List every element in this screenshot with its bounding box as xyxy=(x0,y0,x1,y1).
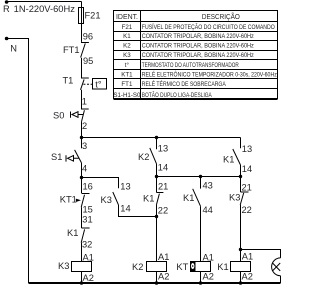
wire bus1 right drop to K1 13 contact xyxy=(240,138,242,149)
wire K3 coil to bus xyxy=(81,272,83,284)
svg-text:A2: A2 xyxy=(83,273,94,283)
thermostat t box xyxy=(93,79,107,90)
node junction K3 branch joins xyxy=(155,215,158,218)
svg-text:A2: A2 xyxy=(203,272,214,282)
svg-text:K1: K1 xyxy=(183,193,194,203)
svg-text:S0: S0 xyxy=(53,111,64,121)
svg-text:FT1: FT1 xyxy=(121,81,133,88)
svg-text:22: 22 xyxy=(242,205,252,215)
svg-text:CONTATOR TRIPOLAR, BOBINA 220V: CONTATOR TRIPOLAR, BOBINA 220V-60Hz xyxy=(142,43,254,50)
node junction lamp branch xyxy=(239,248,242,251)
wire K1 43 contact to KT1 coil xyxy=(200,206,202,261)
svg-text:K3: K3 xyxy=(123,52,131,59)
S0 actuator xyxy=(71,112,84,118)
wire S1 down to KT1 contact xyxy=(81,163,83,193)
svg-text:RELÉ TÉRMICO DE SOBRECARGA: RELÉ TÉRMICO DE SOBRECARGA xyxy=(142,81,227,88)
wire K1 coil to bus xyxy=(240,272,242,284)
svg-text:14: 14 xyxy=(242,164,252,174)
svg-text:3: 3 xyxy=(82,141,87,151)
svg-text:F21: F21 xyxy=(85,11,101,21)
svg-text:IDENT.: IDENT. xyxy=(116,12,138,21)
svg-text:K1: K1 xyxy=(143,194,154,204)
coil K2 xyxy=(147,262,167,272)
svg-text:K2: K2 xyxy=(123,43,131,50)
timer contact KT1 (15-16) xyxy=(81,194,89,208)
contact K3 (NO 13-14) xyxy=(113,192,119,205)
S1 actuator xyxy=(66,155,79,161)
svg-text:F21: F21 xyxy=(122,24,133,31)
svg-text:13: 13 xyxy=(242,144,252,154)
svg-text:K2: K2 xyxy=(132,262,143,272)
svg-text:96: 96 xyxy=(83,31,93,41)
svg-text:21: 21 xyxy=(242,183,252,193)
wire K3 NC to K1 coil xyxy=(240,205,242,262)
wire K1 13 contact to bus2 xyxy=(240,165,242,177)
node N neutral dot xyxy=(5,37,9,41)
node junction K3 parallel branch xyxy=(80,176,83,179)
wire K2 contact to bus2 xyxy=(156,164,158,177)
wire KT1 coil to bus xyxy=(200,272,202,284)
svg-text:R: R xyxy=(3,4,10,14)
wire K3 parallel branch top xyxy=(82,178,119,189)
dashed link T1 to t box xyxy=(83,83,92,85)
node R phase supply dot xyxy=(5,0,9,4)
svg-text:13: 13 xyxy=(120,181,130,191)
node junction bus2 right xyxy=(239,175,242,178)
legend table frame xyxy=(114,11,278,100)
svg-text:CONTATOR TRIPOLAR, BOBINA 220V: CONTATOR TRIPOLAR, BOBINA 220V-60Hz xyxy=(142,33,254,40)
svg-text:15: 15 xyxy=(83,204,93,214)
wire bus1 xyxy=(82,137,241,139)
svg-text:t°: t° xyxy=(95,80,102,90)
wire main column top through fuse down to FT1 xyxy=(81,2,83,42)
svg-text:1: 1 xyxy=(82,97,87,107)
svg-text:CONTATOR TRIPOLAR, BOBINA 220V: CONTATOR TRIPOLAR, BOBINA 220V-60Hz xyxy=(142,52,254,59)
contact K3 (NC 21-22) xyxy=(240,177,248,206)
svg-text:14: 14 xyxy=(158,163,168,173)
svg-text:K1: K1 xyxy=(123,33,131,40)
wire lamp branch xyxy=(241,250,281,258)
svg-text:A2: A2 xyxy=(242,272,253,282)
node KT1 bus junction xyxy=(199,281,203,285)
svg-text:31: 31 xyxy=(82,215,92,225)
svg-text:21: 21 xyxy=(158,182,168,192)
svg-text:BOTÃO DUPLO LIGA-DESLIGA: BOTÃO DUPLO LIGA-DESLIGA xyxy=(142,92,213,99)
svg-text:A1: A1 xyxy=(242,251,253,261)
wire K2 coil to bus xyxy=(156,272,158,284)
svg-text:2: 2 xyxy=(82,121,87,131)
svg-text:A1: A1 xyxy=(203,252,214,262)
node K3 bus junction xyxy=(80,281,84,285)
node junction bus1 K2 column xyxy=(155,136,158,139)
node junction bus1 left xyxy=(80,136,83,139)
svg-text:4: 4 xyxy=(82,164,87,174)
svg-text:43: 43 xyxy=(203,180,213,190)
svg-text:32: 32 xyxy=(82,239,92,249)
svg-text:K3: K3 xyxy=(229,192,240,202)
coil K3 xyxy=(72,262,92,272)
thermal relay contact FT1 (NC 95-96) xyxy=(81,43,89,58)
KT1 timer arrow xyxy=(76,199,81,202)
svg-text:KT: KT xyxy=(176,262,188,272)
svg-text:K1: K1 xyxy=(67,228,78,238)
contact K1 (NC 21-22) xyxy=(156,177,163,205)
coil K1 xyxy=(231,262,251,272)
svg-text:K3: K3 xyxy=(101,195,112,205)
svg-text:T1: T1 xyxy=(63,76,74,86)
svg-text:FUSÍVEL DE PROTEÇÃO DO CIRCUIT: FUSÍVEL DE PROTEÇÃO DO CIRCUITO DE COMAN… xyxy=(142,24,275,31)
thermostat contact T1 (NC) xyxy=(81,78,89,90)
svg-text:95: 95 xyxy=(83,56,93,66)
pushbutton S1 (NO) xyxy=(75,150,82,163)
svg-text:A2: A2 xyxy=(158,271,169,281)
svg-text:A1: A1 xyxy=(158,252,169,262)
wire R line to fuse xyxy=(7,1,82,3)
contact K2 (NO 13-14) xyxy=(150,148,157,164)
svg-text:44: 44 xyxy=(203,205,213,215)
svg-text:TERMOSTATO DO AUTOTRANSFORMADO: TERMOSTATO DO AUTOTRANSFORMADOR xyxy=(142,62,239,69)
svg-text:N: N xyxy=(10,44,17,54)
svg-text:KT1: KT1 xyxy=(60,195,77,205)
svg-text:1N-220V-60Hz: 1N-220V-60Hz xyxy=(14,4,76,14)
wire KT1 to K1 NC xyxy=(81,207,83,228)
wire bus2 to K1 43 contact xyxy=(200,177,202,189)
svg-text:K1: K1 xyxy=(223,155,234,165)
svg-text:S1: S1 xyxy=(51,152,62,162)
svg-text:FT1: FT1 xyxy=(63,45,80,55)
svg-text:K2: K2 xyxy=(138,152,149,162)
svg-text:16: 16 xyxy=(83,182,93,192)
pushbutton S0 (NC) xyxy=(81,109,89,122)
fuse F21 xyxy=(79,8,84,24)
wire lamp to bus xyxy=(280,276,282,283)
contact K1 (NC 31-32) xyxy=(81,228,89,243)
node K1 bus junction xyxy=(239,281,243,285)
contact K1 (NO 13-14) xyxy=(233,149,241,165)
timer coil KT1 xyxy=(191,262,211,272)
bottom bus wire xyxy=(29,282,281,284)
svg-text:K3: K3 xyxy=(58,261,69,271)
wire bus2 xyxy=(157,176,241,178)
wire bus1 to K2 contact xyxy=(156,138,158,150)
wire T1 to S0 xyxy=(81,90,83,109)
wire S0 to S1 xyxy=(81,122,83,149)
node junction bus2 K1 43 branch xyxy=(199,175,202,178)
svg-text:13: 13 xyxy=(158,143,168,153)
wire FT1 to T1 xyxy=(81,58,83,78)
wire K1 NC to K2 coil xyxy=(156,205,158,262)
contact K1 (NO 43-44) xyxy=(193,189,201,206)
svg-text:t°: t° xyxy=(125,62,130,69)
svg-text:A1: A1 xyxy=(83,252,94,262)
lamp H1 xyxy=(272,258,281,276)
wire N line down left side to bottom bus xyxy=(7,39,29,284)
svg-text:S1-H1-S0: S1-H1-S0 xyxy=(113,92,141,99)
node K2 bus junction xyxy=(155,281,159,285)
svg-text:RELÉ ELETRÔNICO TEMPORIZADOR 0: RELÉ ELETRÔNICO TEMPORIZADOR 0-30s, 220V… xyxy=(142,71,277,78)
wire K1 NC to K3 coil xyxy=(81,243,83,262)
node junction bus2 left xyxy=(155,175,158,178)
svg-text:DESCRIÇÃO: DESCRIÇÃO xyxy=(202,12,240,21)
svg-text:KT1: KT1 xyxy=(121,71,133,78)
svg-text:14: 14 xyxy=(120,204,130,214)
wire K3 branch bottom xyxy=(119,205,157,217)
svg-text:22: 22 xyxy=(158,205,168,215)
svg-text:K1: K1 xyxy=(217,262,228,272)
